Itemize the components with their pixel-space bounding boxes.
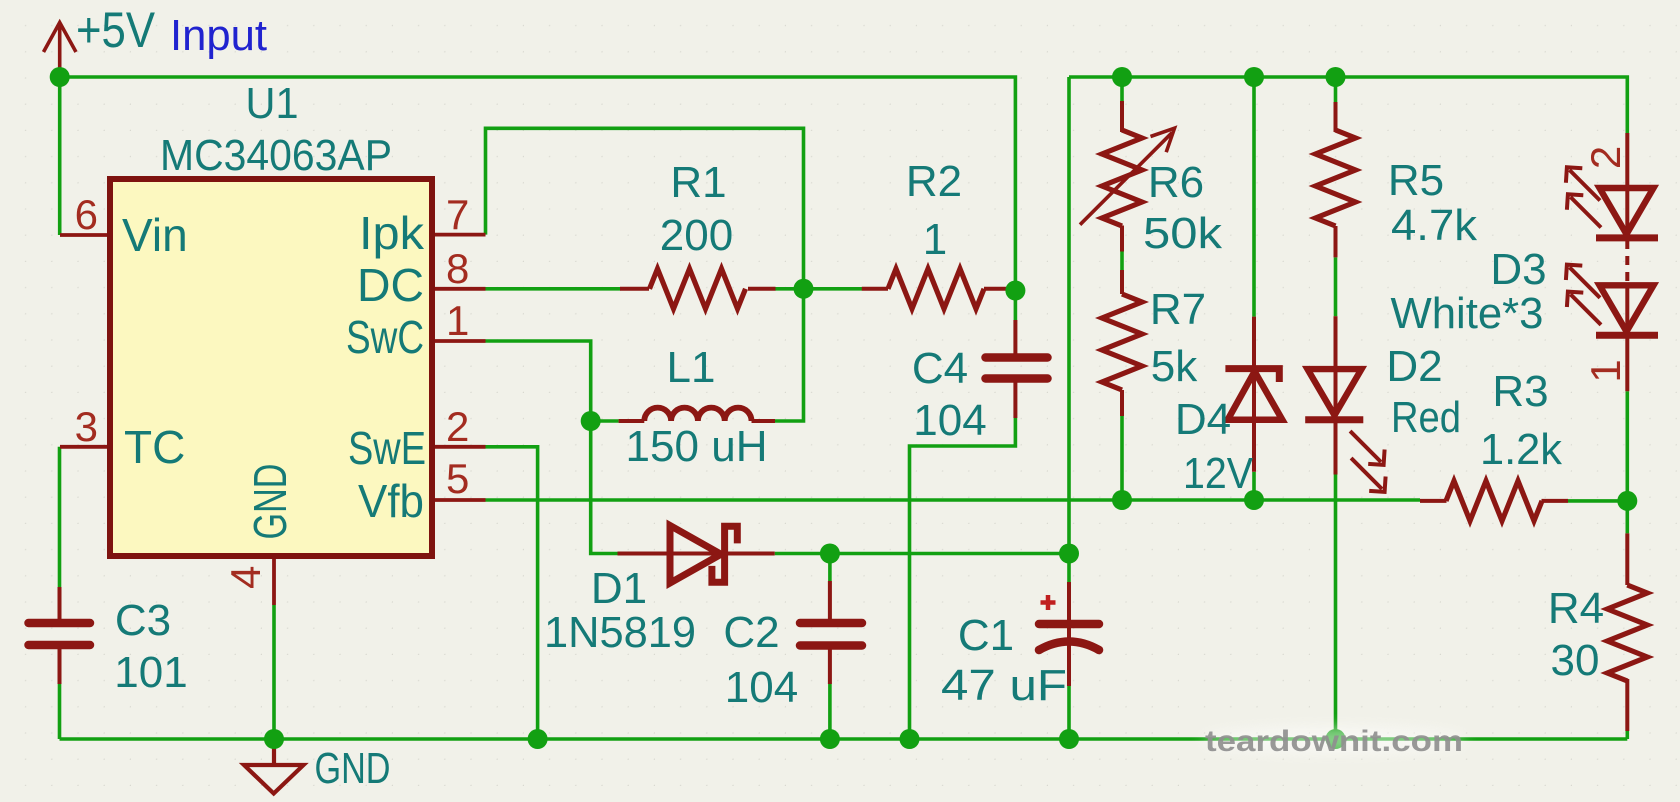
svg-text:101: 101 [114, 648, 187, 697]
svg-text:R7: R7 [1150, 285, 1206, 334]
capacitor C1 leads [1067, 582, 1071, 686]
capacitor C2 plates [800, 623, 862, 646]
svg-text:1: 1 [1582, 359, 1629, 382]
svg-text:D2: D2 [1386, 342, 1442, 391]
wire R5 to D2 [1334, 257, 1338, 316]
svg-text:104: 104 [725, 663, 798, 712]
potentiometer R6 arrow [1080, 128, 1175, 225]
svg-text:47 uF: 47 uF [941, 661, 1067, 710]
node gnd-D2 [1326, 729, 1346, 749]
wire TC pin3 down to C3 [58, 447, 62, 587]
wire R2 right to C4 node [1010, 287, 1016, 291]
wire GND pin4 down [272, 605, 276, 739]
LED D3 dashed link [1625, 240, 1629, 284]
svg-text:DC: DC [357, 259, 424, 311]
svg-text:4.7k: 4.7k [1391, 201, 1478, 250]
node gnd-C4 [900, 729, 920, 749]
svg-text:6: 6 [75, 191, 98, 238]
resistor R3 leads [1420, 499, 1568, 503]
wire R4 bottom stub [1626, 731, 1630, 739]
wire C1 top stub [1067, 554, 1071, 583]
resistor R7 [1102, 294, 1142, 390]
resistor R1 leads [620, 287, 776, 291]
capacitor C4 leads [1013, 320, 1017, 418]
wire C2 bottom to ground [828, 684, 832, 739]
node R1-R2 [794, 279, 814, 299]
svg-text:TC: TC [124, 421, 185, 473]
node rail-D4 [1244, 67, 1264, 87]
wire R5 top stub [1334, 77, 1338, 102]
power symbol +5V [44, 23, 77, 72]
node gnd-SwE [528, 729, 548, 749]
svg-text:R2: R2 [906, 157, 962, 206]
capacitor C3 plates [29, 623, 91, 645]
LED D3 leads [1625, 133, 1629, 391]
LED D2 [1305, 369, 1385, 492]
svg-text:3: 3 [75, 403, 98, 450]
wire D4 anode to Vfb [1252, 472, 1256, 500]
node R7-Vfb [1112, 490, 1132, 510]
pin 6 Vin stub [60, 233, 110, 237]
wire R3 right to node [1568, 499, 1627, 503]
node R2-C4 [1005, 281, 1025, 301]
wire R1 right to node [775, 287, 804, 291]
svg-text:7: 7 [446, 191, 469, 238]
resistor R4 leads [1625, 533, 1629, 731]
wire output top rail [1069, 77, 1627, 133]
wire ground rail bottom [60, 737, 1628, 741]
resistor R5 leads [1334, 102, 1338, 257]
svg-text:C2: C2 [723, 608, 779, 657]
resistor R2 [888, 269, 984, 309]
svg-text:R3: R3 [1492, 367, 1548, 416]
svg-text:Ipk: Ipk [359, 207, 425, 259]
node D4-Vfb [1244, 490, 1264, 510]
svg-text:1.2k: 1.2k [1480, 425, 1563, 474]
wire +5V rail top [60, 77, 1016, 320]
node rail-R6 [1112, 67, 1132, 87]
svg-text:Vin: Vin [122, 209, 188, 261]
diode D4 leads [1252, 317, 1256, 472]
resistor R5 [1316, 130, 1356, 226]
node +5V [50, 67, 70, 87]
op-amp U1 MC34063AP body [110, 179, 432, 556]
svg-text:R5: R5 [1388, 156, 1444, 205]
wire D1 cathode line to output node [775, 552, 1069, 556]
svg-text:2: 2 [1582, 146, 1629, 169]
wire C4 bottom to ground [910, 418, 1016, 739]
wire D4 cathode up to rail [1252, 77, 1256, 317]
pin 7 Ipk stub [432, 233, 486, 237]
diode D1 through line [618, 552, 775, 556]
svg-text:50k: 50k [1143, 209, 1223, 258]
svg-text:GND: GND [244, 464, 296, 540]
capacitor C1 polarized plates [1039, 624, 1099, 650]
wire D2 cathode down to ground rail [1334, 475, 1338, 740]
svg-text:teardownit.com: teardownit.com [1205, 725, 1463, 758]
resistor R3 [1446, 481, 1542, 521]
pin 5 Vfb stub [432, 498, 486, 502]
svg-text:Input: Input [170, 11, 267, 60]
svg-text:1N5819: 1N5819 [544, 608, 696, 657]
LED D3 (x2 with dashed link) [1566, 167, 1658, 335]
wire node to R2 left [804, 287, 863, 291]
pin 2 SwE stub [432, 445, 486, 449]
svg-text:D1: D1 [591, 564, 647, 613]
resistor R1 [650, 269, 746, 309]
node gnd-C2 [820, 729, 840, 749]
node out-C1 [1059, 544, 1079, 564]
svg-text:1: 1 [923, 215, 947, 264]
svg-text:2: 2 [446, 403, 469, 450]
svg-text:R4: R4 [1548, 584, 1604, 633]
node rail-R5 [1326, 67, 1346, 87]
svg-text:SwE: SwE [348, 422, 426, 474]
svg-text:Red: Red [1391, 393, 1461, 442]
wire C2 top stub [828, 554, 832, 582]
svg-text:5k: 5k [1151, 342, 1198, 391]
svg-text:12V: 12V [1183, 449, 1254, 498]
zener D4 [1225, 369, 1282, 420]
node gnd-pin4 [264, 729, 284, 749]
svg-text:200: 200 [660, 211, 733, 260]
pin 4 GND stub [272, 556, 276, 605]
wire output vertical [1067, 77, 1071, 554]
svg-text:R6: R6 [1148, 158, 1204, 207]
resistor R6 leads [1120, 101, 1124, 252]
capacitor C3 leads [58, 587, 62, 684]
svg-text:C4: C4 [912, 344, 968, 393]
svg-text:SwC: SwC [346, 311, 424, 363]
wire SwC pin1 down to L1 left and D1 anode [486, 341, 618, 554]
C1 plus sign [1041, 595, 1056, 610]
pin 1 SwC stub [432, 339, 486, 343]
wire DC pin8 to R1 [486, 287, 621, 291]
diode D1 1N5819 schottky [670, 526, 737, 584]
LED D2 leads [1334, 316, 1338, 474]
svg-text:R1: R1 [670, 158, 726, 207]
wire C3 bottom to ground rail [58, 684, 62, 739]
wire +5V to Vin pin6 [58, 77, 62, 235]
svg-text:8: 8 [446, 245, 469, 292]
svg-text:C3: C3 [115, 596, 171, 645]
resistor R7 leads [1120, 270, 1124, 416]
svg-text:D4: D4 [1175, 395, 1231, 444]
node D1-C2 [820, 544, 840, 564]
svg-text:30: 30 [1551, 636, 1600, 685]
svg-text:5: 5 [446, 455, 469, 502]
ground symbol [244, 739, 304, 794]
svg-text:4: 4 [222, 566, 269, 589]
wire SwE pin2 down to ground rail [486, 447, 538, 739]
svg-text:MC34063AP: MC34063AP [160, 131, 392, 180]
wire Ipk loop pin7 up over to R1-R2 node and down to L1 [486, 128, 804, 421]
inductor L1 [644, 408, 751, 421]
svg-text:L1: L1 [667, 343, 716, 392]
node R3-R4 [1617, 491, 1637, 511]
wire L1 left stub [591, 419, 619, 423]
svg-text:GND: GND [315, 744, 391, 793]
wire Vfb feedback line [486, 498, 1421, 502]
pin 3 TC stub [60, 445, 110, 449]
inductor L1 leads [619, 419, 775, 423]
wire R7 bottom to Vfb [1120, 416, 1124, 500]
svg-text:White*3: White*3 [1391, 289, 1544, 338]
svg-text:150 uH: 150 uH [626, 422, 768, 471]
svg-text:104: 104 [913, 396, 986, 445]
node gnd-C1 [1059, 729, 1079, 749]
wire R6 top stub [1120, 77, 1124, 101]
resistor R2 leads [862, 287, 1010, 291]
svg-text:U1: U1 [246, 79, 299, 128]
resistor R4 [1607, 585, 1647, 681]
watermark glow [1202, 727, 1466, 753]
capacitor C4 plates [986, 358, 1048, 379]
svg-text:Vfb: Vfb [358, 475, 424, 527]
wire C1 bottom to ground [1067, 686, 1071, 739]
svg-text:C1: C1 [958, 611, 1014, 660]
pin 8 DC stub [432, 287, 486, 291]
svg-text:+5V: +5V [76, 2, 156, 58]
svg-text:1: 1 [446, 297, 469, 344]
wire R6-R7 link [1120, 252, 1124, 271]
capacitor C2 leads [828, 581, 832, 684]
resistor R6 [1102, 130, 1142, 226]
wire D3 bottom to R3/R4 node [1626, 391, 1630, 533]
node SwC-L1 [581, 411, 601, 431]
svg-text:D3: D3 [1490, 245, 1546, 294]
